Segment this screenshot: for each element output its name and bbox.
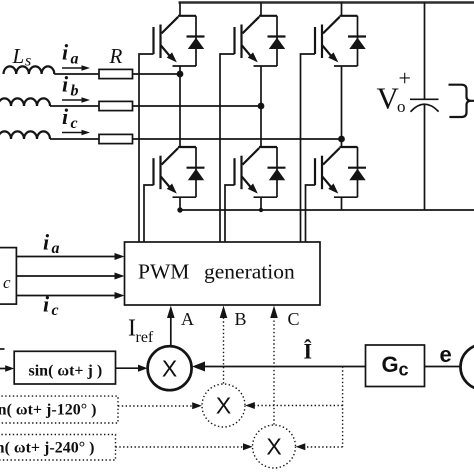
node phase a junction [177,71,184,78]
wire ic into PWM [16,295,117,297]
signal B dotted arrow into PWM [223,316,225,384]
svg-text:i: i [43,292,50,317]
gate wire Q6 [306,185,316,242]
svg-text:X: X [266,434,281,460]
capacitor C bottom curved plate [411,104,439,112]
capacitor C top plate [410,98,439,100]
gate wire Q1 [139,54,154,242]
j input arrow into sin1 [0,368,8,370]
leg 3 phase vertical wire [341,66,343,147]
svg-text:s: s [25,53,31,70]
sin block 3 dotted (cut at left edge) [0,435,116,461]
svg-text:sin( ωt+ j ): sin( ωt+ j ) [29,363,103,380]
dotted Ihat branch vertical [342,367,344,448]
wire Ihat from Gc to X1 [204,366,366,368]
signal C dotted arrow into PWM [273,316,275,425]
svg-text:b: b [71,83,79,100]
leg 2 phase vertical wire [260,66,262,147]
wire Gc to summer [425,366,462,368]
resistor R phase c [99,134,133,143]
leg 1 emitter wire to bottom rail [179,197,181,210]
svg-text:Î: Î [304,339,313,364]
leg 1 phase vertical wire [179,66,181,147]
Gc block [366,345,425,387]
dotted branch to X3 [302,446,343,448]
svg-text:A: A [181,309,194,329]
gate wire Q5 [225,185,235,242]
svg-text:L: L [12,44,25,68]
capacitor branch wire lower [424,105,426,210]
top DC bus rail [179,1,474,4]
wire phase c to resistor [50,138,99,140]
svg-text:+: + [399,66,411,91]
wire ib into PWM [16,275,117,277]
leg 2 emitter wire to bottom rail [260,197,262,210]
node phase b junction [258,103,265,110]
gate wire Q2 [220,54,235,242]
IGBT Q1 top leg 1 with diode [154,16,205,66]
svg-text:sin( ωt+ j-120° ): sin( ωt+ j-120° ) [0,402,96,419]
wire phase b to resistor [50,105,99,107]
node leg 2 bottom rail junction [259,208,263,212]
resistor R phase b [99,101,133,110]
leg 3 emitter wire to bottom rail [341,197,343,210]
IGBT Q5 bottom leg 2 with diode [235,147,286,197]
current sensor box (cut at left edge) [0,248,16,305]
svg-text:e: e [440,342,452,367]
sin block 1 [14,351,115,384]
node leg 1 bottom rail junction [177,207,182,212]
load bracket [449,85,474,117]
bottom DC bus rail [179,209,474,211]
leg 3 collector wire from rail [341,3,343,16]
svg-text:i: i [62,40,69,65]
svg-text:i: i [62,72,69,97]
IGBT Q3 top leg 3 with diode [315,16,366,66]
gate wire Q4 [144,185,154,242]
svg-text:B: B [235,309,247,329]
wire sin1 to X1 [116,367,142,369]
svg-text:i: i [62,104,69,129]
svg-text:c: c [71,115,78,132]
summing junction (cut at right edge) [461,345,474,390]
svg-text:i: i [43,230,50,255]
svg-text:ref: ref [136,329,154,346]
wire resistor c to leg 3 [133,138,342,140]
node phase c junction [338,136,345,143]
gate wire Q3 [301,54,316,242]
wire phase a to resistor [54,73,99,75]
svg-text:G: G [382,352,399,377]
IGBT Q2 top leg 2 with diode [235,16,286,66]
leg 2 collector wire from rail [260,3,262,16]
resistor R phase a [99,69,133,78]
dotted wire sin3 to X3 [116,446,248,448]
svg-text:c: c [52,302,59,319]
svg-text:PWM: PWM [138,260,189,284]
svg-text:X: X [216,393,231,419]
leg 1 collector wire from rail [179,3,181,16]
multiplier X1 [148,346,192,390]
svg-text:c: c [3,273,11,292]
svg-text:R: R [109,44,123,68]
capacitor branch wire upper [424,3,426,100]
svg-text:a: a [71,51,79,68]
inductor Ls phase c [0,131,50,139]
inductor Ls phase b [0,98,50,106]
svg-text:a: a [52,240,60,257]
IGBT Q6 bottom leg 3 with diode [315,147,366,197]
svg-text:X: X [162,355,177,381]
multiplier X3 dotted [253,425,296,468]
svg-text:C: C [288,309,300,329]
dotted wire sin2 to X2 [118,405,196,407]
svg-text:c: c [399,360,409,380]
j input stub [0,348,5,350]
IGBT Q4 bottom leg 1 with diode [154,147,205,197]
svg-text:o: o [397,97,406,116]
sin block 2 dotted (cut at left edge) [0,396,118,423]
inductor Ls phase a [4,66,55,74]
signal A arrow into PWM [170,316,172,346]
svg-text:generation: generation [204,260,295,284]
wire resistor b to leg 2 [133,105,262,107]
multiplier X2 dotted [202,384,245,427]
wire resistor a to leg 1 [133,73,181,75]
PWM generation block [125,242,321,305]
svg-text:sin( ωt+ j-240° ): sin( ωt+ j-240° ) [0,440,94,457]
dotted branch to X2 [252,405,343,407]
wire ia into PWM [16,256,117,258]
